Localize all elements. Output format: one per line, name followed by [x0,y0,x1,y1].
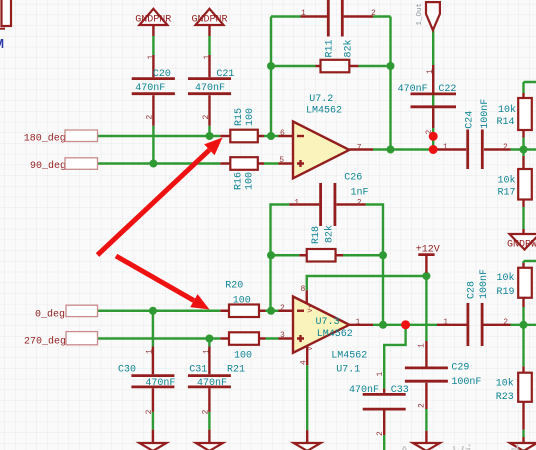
svg-text:1nF: 1nF [351,188,369,199]
svg-text:V+: V+ [307,305,314,313]
svg-text:2: 2 [146,115,155,120]
svg-text:1_Out: 1_Out [416,3,424,26]
svg-text:R18: R18 [311,226,322,244]
svg-text:180_deg: 180_deg [24,133,66,145]
svg-text:10k: 10k [498,104,516,116]
svg-text:GNDPNR: GNDPNR [135,14,171,25]
svg-text:R23: R23 [496,392,514,403]
svg-text:2: 2 [280,304,285,313]
svg-text:C20: C20 [153,69,171,80]
svg-text:10k: 10k [498,175,516,187]
svg-text:R20: R20 [225,281,243,292]
svg-text:M: M [0,37,4,53]
svg-text:V-: V- [307,343,314,351]
svg-text:100: 100 [245,172,256,190]
svg-text:2: 2 [371,9,376,18]
svg-text:270_deg: 270_deg [24,336,66,348]
svg-text:d: d [509,444,520,450]
svg-text:100: 100 [245,108,256,126]
svg-text:470nF: 470nF [398,84,428,95]
svg-text:100: 100 [234,351,252,362]
svg-text:100nF: 100nF [480,99,491,129]
svg-text:C22: C22 [438,84,456,95]
svg-text:GNDPWR: GNDPWR [507,240,536,251]
svg-text:C28: C28 [466,281,477,299]
svg-text:1: 1 [426,69,435,74]
svg-text:6: 6 [280,129,285,138]
svg-text:1: 1 [443,318,448,327]
svg-text:U7.2: U7.2 [309,94,333,105]
svg-text:90_deg: 90_deg [30,160,66,172]
svg-text:U7.3: U7.3 [316,317,340,328]
svg-text:100nF: 100nF [479,269,490,299]
svg-text:10k: 10k [496,377,514,389]
svg-text:470nF: 470nF [135,83,165,94]
svg-text:3: 3 [280,331,285,340]
svg-text:2: 2 [202,409,211,414]
svg-text:82k: 82k [324,225,336,243]
svg-text:R11: R11 [325,39,336,57]
svg-text:LM4562: LM4562 [317,329,353,340]
svg-text:C29: C29 [451,363,469,374]
svg-text:1: 1 [418,343,427,348]
svg-text:C21: C21 [216,69,234,80]
svg-text:2: 2 [503,318,508,327]
svg-text:R16: R16 [233,172,244,190]
svg-text:470nF: 470nF [197,378,227,389]
svg-text:470nF: 470nF [145,378,175,389]
svg-text:1: 1 [146,349,155,354]
svg-text:R21: R21 [227,364,245,375]
svg-text:100: 100 [233,296,251,307]
svg-text:Wi: Wi [453,444,475,450]
svg-text:1: 1 [376,372,385,377]
svg-text:0_deg: 0_deg [35,309,65,321]
svg-text:1: 1 [443,143,448,152]
svg-text:C33: C33 [391,385,409,396]
svg-text:C31: C31 [189,364,207,375]
svg-text:R17: R17 [498,188,516,199]
svg-text:100nF: 100nF [451,377,481,388]
svg-text:470nF: 470nF [195,83,225,94]
svg-text:5: 5 [279,156,284,165]
svg-text:R15: R15 [234,108,245,126]
svg-text:1: 1 [356,318,361,327]
svg-text:1: 1 [294,199,299,208]
svg-text:2: 2 [503,143,508,152]
svg-text:+12V: +12V [416,245,440,256]
svg-text:2: 2 [376,431,385,436]
svg-text:8: 8 [301,285,306,294]
svg-text:C24: C24 [464,111,475,129]
svg-text:A: A [399,444,410,450]
svg-text:10k: 10k [497,272,515,284]
svg-text:1: 1 [203,55,212,60]
svg-text:R14: R14 [497,117,515,128]
svg-text:1: 1 [301,9,306,18]
svg-text:2: 2 [202,115,211,120]
svg-text:LM4562: LM4562 [331,351,367,362]
svg-text:GNDPNR: GNDPNR [192,14,228,25]
svg-text:R19: R19 [497,287,515,298]
svg-text:4: 4 [300,360,309,365]
svg-text:C26: C26 [344,173,362,184]
svg-text:470nF: 470nF [349,385,379,396]
svg-text:1: 1 [147,55,156,60]
svg-text:U7.1: U7.1 [336,364,360,375]
svg-text:2: 2 [357,199,362,208]
svg-text:82k: 82k [343,39,355,57]
svg-text:2: 2 [418,403,427,408]
svg-text:1: 1 [203,349,212,354]
svg-text:7: 7 [357,144,362,153]
svg-text:2: 2 [145,409,154,414]
svg-text:C30: C30 [118,364,136,375]
svg-text:LM4562: LM4562 [306,106,342,117]
